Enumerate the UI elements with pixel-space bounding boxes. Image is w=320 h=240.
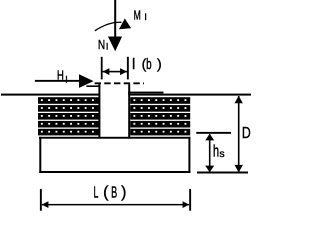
label l (b ) xyxy=(132,56,162,74)
column wall right xyxy=(128,84,130,138)
dimension line L(B) with arrows xyxy=(42,201,189,208)
svg-text:s: s xyxy=(219,148,224,160)
dimension tick left (l(b)) xyxy=(101,57,103,80)
arrowhead N (down) xyxy=(108,37,122,52)
dimension tick right (l(b)) xyxy=(127,57,129,80)
load line H (horizontal) xyxy=(35,80,80,82)
footing right wall xyxy=(188,137,190,173)
arrowhead M (up-right) xyxy=(119,19,131,30)
hs top tick xyxy=(196,132,231,134)
svg-text:L: L xyxy=(94,185,99,202)
dimension base line bottom right xyxy=(197,172,248,174)
svg-text:M: M xyxy=(134,8,141,23)
label M_I xyxy=(134,8,147,23)
label H_I xyxy=(57,68,68,85)
label h_s xyxy=(213,143,225,161)
arrowhead H (right) xyxy=(79,74,94,88)
svg-text:(: ( xyxy=(103,184,109,201)
soil dots left block xyxy=(41,99,94,132)
footing left wall xyxy=(39,137,41,173)
load line N (vertical) xyxy=(114,0,116,37)
ground line right segment xyxy=(128,94,251,96)
svg-text:l: l xyxy=(132,56,135,73)
soil hatch right block xyxy=(130,97,190,135)
dimension tick left (L(B)) xyxy=(40,189,42,211)
svg-text:): ) xyxy=(157,56,162,72)
soil hatch left block xyxy=(38,97,99,135)
footing top line xyxy=(39,137,190,139)
soil dots right block xyxy=(133,99,186,132)
label N_I xyxy=(98,37,109,52)
dimension line l(b) with arrows xyxy=(103,68,127,75)
label L ( B ) xyxy=(94,184,127,201)
svg-text:h: h xyxy=(213,143,219,161)
column wall left xyxy=(98,84,100,138)
foundation shoulder left xyxy=(86,85,100,87)
svg-text:H: H xyxy=(57,68,64,83)
dimension line hs xyxy=(205,134,214,172)
dimension tick right (L(B)) xyxy=(189,189,191,211)
svg-text:N: N xyxy=(98,37,105,52)
svg-text:B: B xyxy=(111,185,117,202)
foundation shoulder right xyxy=(128,92,163,94)
footing bottom line xyxy=(39,171,190,173)
svg-text:I: I xyxy=(106,41,109,51)
svg-text:I: I xyxy=(144,12,147,22)
moment arc M xyxy=(95,22,122,31)
ground line left segment xyxy=(1,94,99,96)
dashed column axis line xyxy=(95,82,144,84)
svg-text:D: D xyxy=(242,125,251,142)
svg-text:I: I xyxy=(65,75,68,85)
svg-text:): ) xyxy=(121,184,126,201)
dimension line D xyxy=(235,96,243,173)
svg-text:b: b xyxy=(146,56,152,73)
